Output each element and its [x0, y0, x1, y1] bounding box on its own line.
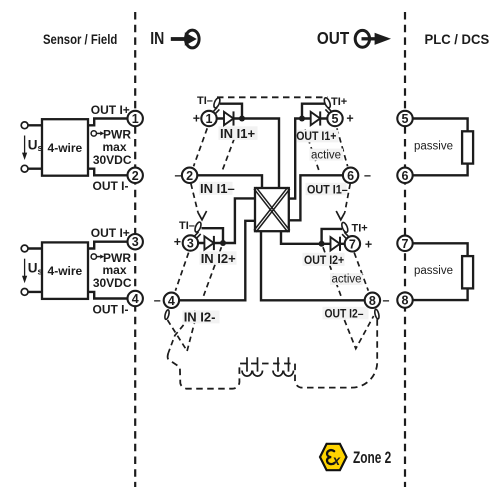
svg-text:IN I2+: IN I2+	[201, 251, 236, 266]
svg-text:passive: passive	[414, 140, 453, 152]
svg-text:2: 2	[132, 169, 139, 183]
svg-text:TI–: TI–	[179, 220, 195, 232]
svg-text:+: +	[365, 238, 372, 252]
svg-text:4-wire: 4-wire	[48, 141, 83, 155]
svg-text:IN I1–: IN I1–	[200, 181, 235, 196]
svg-text:+: +	[174, 235, 181, 249]
svg-text:2: 2	[186, 169, 193, 183]
svg-text:3: 3	[132, 235, 139, 249]
svg-text:IN I1+: IN I1+	[220, 126, 255, 141]
svg-text:7: 7	[349, 237, 356, 251]
svg-text:–: –	[383, 294, 390, 308]
svg-text:active: active	[311, 149, 341, 161]
svg-text:Zone 2: Zone 2	[353, 449, 391, 467]
svg-text:TI–: TI–	[197, 95, 213, 107]
svg-text:1: 1	[206, 112, 213, 126]
svg-text:+: +	[193, 112, 200, 126]
svg-text:–: –	[175, 169, 182, 183]
svg-text:OUT I2+: OUT I2+	[304, 254, 345, 267]
svg-text:Sensor / Field: Sensor / Field	[43, 32, 117, 47]
svg-text:IN I2-: IN I2-	[184, 310, 216, 325]
svg-text:8: 8	[402, 294, 409, 308]
svg-text:–: –	[154, 294, 161, 308]
svg-text:7: 7	[402, 237, 409, 251]
svg-text:4: 4	[132, 292, 139, 306]
svg-text:active: active	[332, 274, 362, 286]
svg-text:5: 5	[332, 112, 339, 126]
svg-text:IN: IN	[150, 28, 164, 48]
svg-text:5: 5	[402, 112, 409, 126]
svg-text:x: x	[332, 453, 341, 468]
svg-text:max: max	[102, 140, 126, 154]
svg-text:TI+: TI+	[331, 96, 347, 108]
svg-text:TI+: TI+	[352, 223, 368, 235]
svg-text:+: +	[346, 112, 353, 126]
svg-text:6: 6	[402, 169, 409, 183]
svg-text:OUT I-: OUT I-	[93, 179, 129, 193]
svg-text:4: 4	[168, 294, 175, 308]
svg-text:–: –	[364, 169, 371, 183]
svg-text:OUT I2–: OUT I2–	[325, 308, 364, 321]
svg-text:PLC / DCS: PLC / DCS	[425, 32, 490, 47]
svg-text:OUT: OUT	[317, 28, 350, 48]
svg-text:6: 6	[347, 169, 354, 183]
svg-text:1: 1	[132, 112, 139, 126]
svg-text:OUT I1–: OUT I1–	[307, 184, 348, 197]
svg-text:30VDC: 30VDC	[93, 153, 132, 167]
svg-text:3: 3	[187, 237, 194, 251]
svg-text:OUT I1+: OUT I1+	[296, 131, 337, 144]
svg-text:8: 8	[369, 294, 376, 308]
svg-text:OUT I+: OUT I+	[91, 103, 130, 117]
